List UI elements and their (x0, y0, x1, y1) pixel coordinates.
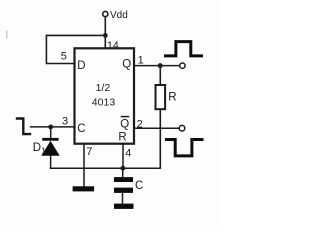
svg-text:7: 7 (86, 146, 92, 158)
svg-text:1: 1 (41, 146, 46, 156)
svg-text:1: 1 (138, 55, 144, 67)
wire: resistor bottom to RC bus (159, 109, 161, 169)
wire: trigger input to pin 3 (C) (30, 126, 75, 128)
diode D1 (41, 138, 59, 156)
wire: bus junction to capacitor top plate (122, 168, 124, 178)
waveform: Q-bar negative pulse (165, 140, 204, 156)
capacitor C (114, 177, 133, 193)
node: clock / D1 junction dot (48, 125, 53, 130)
wire: pin 5 (D) tie to Vdd loop (46, 35, 105, 63)
svg-text:2: 2 (137, 118, 143, 130)
terminal: Vdd open circle (103, 11, 108, 16)
wire: D1 anode to RC bus (50, 155, 52, 169)
wire: RC bus (pin4 / C / R bottom) (50, 167, 160, 169)
svg-text:C: C (77, 123, 85, 135)
svg-text:Q: Q (120, 118, 129, 130)
ground: capacitor ground bar (114, 204, 134, 209)
terminal: Q-bar output open circle (179, 125, 185, 131)
svg-text:3: 3 (62, 116, 68, 128)
wire: pin 2 (Q-bar) output (134, 127, 179, 129)
svg-text:D: D (77, 60, 85, 72)
wire: pin 1 (Q) output (134, 65, 179, 67)
svg-text:C: C (135, 180, 143, 192)
wire: capacitor bottom plate to ground (122, 193, 124, 205)
svg-text:1/2: 1/2 (96, 82, 111, 94)
label: Q-bar output (120, 117, 129, 131)
svg-text:4: 4 (125, 147, 131, 159)
svg-text:Q: Q (122, 58, 131, 70)
svg-text:D: D (33, 142, 41, 154)
node: pin4 / C junction dot (121, 166, 126, 171)
svg-text:14: 14 (107, 40, 119, 52)
ground: pin 7 ground bar (73, 186, 95, 191)
svg-text:R: R (168, 91, 176, 103)
wire: Q junction to resistor top (159, 66, 161, 86)
terminal: Q output open circle (180, 63, 185, 68)
resistor R (156, 85, 166, 109)
label D1 (33, 142, 47, 156)
node: Vdd / pin-5 tie junction dot (103, 33, 108, 38)
wire: Vdd supply vertical (104, 17, 106, 49)
wire: pin 7 to ground (83, 144, 85, 187)
svg-text:4013: 4013 (92, 97, 116, 109)
wire: junction to D1 cathode (50, 127, 52, 139)
svg-text:5: 5 (61, 50, 67, 62)
waveform: Q positive pulse (164, 42, 203, 56)
node: Q / R junction dot (158, 63, 163, 68)
wire: pin 4 (R) down to bus (122, 144, 124, 168)
IC U1: 1/2 4013 body (75, 48, 135, 143)
svg-text:Vdd: Vdd (110, 10, 128, 21)
waveform: input trigger falling edge (16, 119, 31, 135)
svg-text:R: R (118, 132, 126, 144)
